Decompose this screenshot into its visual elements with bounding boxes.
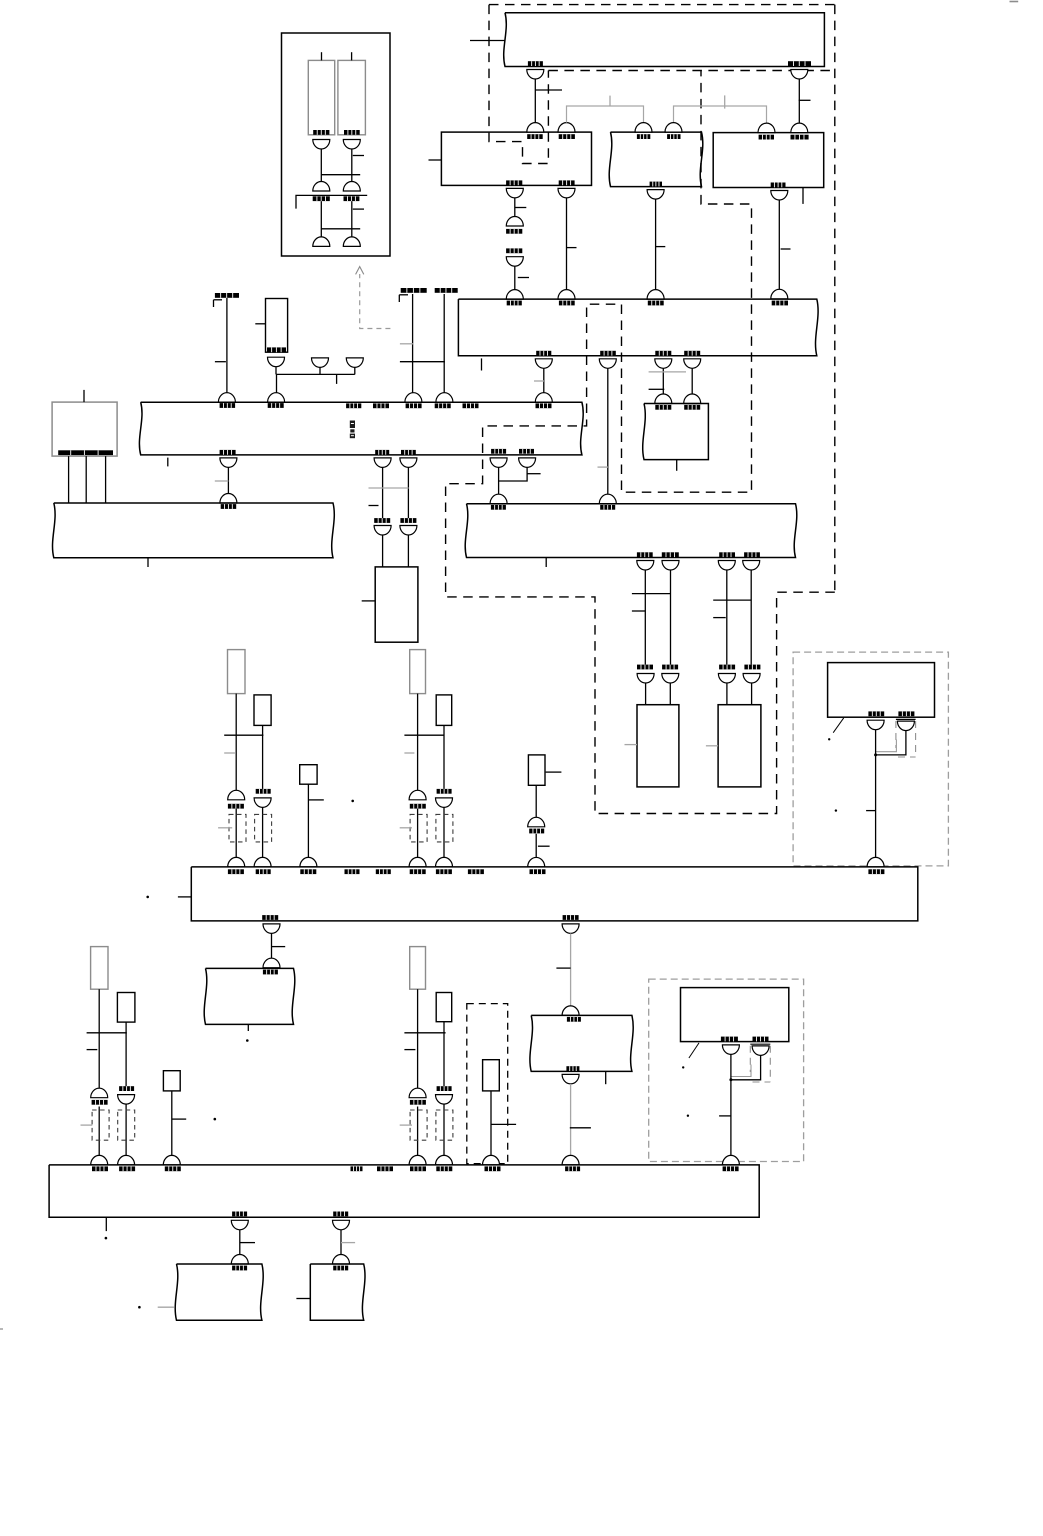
tick into CB5	[255, 323, 265, 325]
label	[221, 504, 237, 509]
label	[719, 665, 735, 670]
label	[436, 869, 452, 874]
label	[662, 552, 679, 557]
cable A5	[436, 695, 452, 726]
label	[263, 970, 278, 975]
dashed boundary top	[489, 4, 835, 6]
breaker	[490, 458, 507, 468]
breaker	[374, 526, 391, 536]
breaker	[263, 958, 280, 968]
breaker	[374, 458, 391, 468]
tick	[404, 1049, 415, 1051]
label	[506, 180, 522, 185]
tick	[491, 1123, 516, 1125]
cable B6	[483, 1060, 500, 1091]
battery cell B2	[338, 60, 366, 134]
label	[375, 450, 389, 455]
wire	[691, 368, 693, 394]
breaker	[118, 1155, 135, 1165]
wire stub	[481, 358, 483, 370]
switchgear SG1	[441, 132, 591, 185]
label	[300, 869, 316, 874]
breaker	[91, 1088, 108, 1098]
wire	[351, 201, 353, 237]
dashed bracket	[92, 1110, 109, 1140]
bus M	[458, 299, 818, 356]
breaker	[436, 857, 453, 867]
tick	[353, 208, 364, 210]
breaker CB-E1f	[343, 237, 360, 247]
tie tick	[87, 1032, 127, 1034]
breaker	[228, 790, 245, 799]
gray wire	[570, 1084, 572, 1156]
label	[648, 301, 664, 306]
wire	[382, 535, 384, 567]
dot	[682, 1066, 684, 1068]
label	[436, 1166, 452, 1171]
ups box U2	[681, 988, 789, 1042]
bus W	[53, 503, 335, 558]
cable A4	[410, 650, 426, 694]
label	[637, 552, 653, 557]
wire	[417, 989, 419, 1088]
breaker	[558, 290, 575, 300]
gray tick	[400, 827, 412, 829]
wire	[514, 266, 516, 289]
label	[165, 1166, 181, 1171]
tick	[369, 505, 379, 507]
gray feeder G2	[674, 106, 767, 123]
gray tick	[625, 744, 638, 746]
junction dot	[729, 1078, 732, 1081]
label	[528, 61, 543, 66]
wire	[443, 725, 445, 789]
source label	[214, 293, 240, 307]
breaker	[655, 359, 672, 369]
breaker	[228, 857, 245, 867]
wire stub above B1	[321, 52, 323, 60]
transformer TX1	[637, 705, 679, 787]
label	[333, 1266, 348, 1271]
label	[744, 665, 760, 670]
breaker	[599, 494, 616, 504]
label	[655, 405, 671, 410]
label	[267, 347, 286, 352]
label	[772, 301, 788, 306]
gray tick	[81, 1124, 93, 1126]
breaker	[400, 458, 417, 468]
wire	[351, 149, 353, 182]
label	[256, 869, 271, 874]
label	[437, 1086, 452, 1091]
label	[228, 804, 244, 809]
dot	[146, 896, 149, 899]
breaker	[662, 674, 679, 684]
label	[771, 183, 786, 188]
breaker	[519, 458, 536, 468]
gray stair wire	[731, 1065, 751, 1077]
cable B1	[91, 947, 108, 990]
wire stub	[676, 460, 678, 471]
tie tick	[713, 599, 751, 601]
breaker	[897, 721, 914, 731]
wire	[566, 198, 568, 290]
leader line	[689, 1043, 699, 1058]
label	[485, 1166, 501, 1171]
breaker	[263, 924, 280, 934]
wire	[407, 467, 409, 518]
wire	[607, 368, 609, 494]
label	[753, 1037, 769, 1042]
tick	[309, 799, 324, 801]
label	[650, 182, 662, 187]
bus N	[465, 504, 797, 558]
breaker	[743, 674, 760, 684]
label	[313, 196, 330, 201]
cable box CB5	[266, 299, 288, 353]
label	[637, 665, 653, 670]
tick into bus A	[470, 40, 505, 42]
label	[435, 403, 451, 408]
wire	[320, 201, 322, 237]
source label	[399, 288, 426, 302]
mcc box T2	[310, 1264, 365, 1320]
bus Q	[204, 968, 295, 1024]
breaker	[637, 674, 654, 684]
stray mark	[0, 1328, 3, 1330]
label	[527, 134, 543, 139]
breaker CB-E1d	[343, 182, 360, 192]
gray tick	[215, 480, 229, 482]
breaker	[558, 188, 575, 198]
breaker bracket	[896, 719, 916, 757]
wire	[276, 374, 278, 392]
breaker	[268, 357, 285, 367]
wire	[644, 570, 646, 665]
wire	[271, 933, 273, 958]
wire stub	[354, 367, 356, 374]
breaker	[867, 720, 884, 730]
transformer TX2	[718, 705, 761, 787]
breaker	[333, 1220, 350, 1230]
label	[565, 1166, 580, 1171]
wire	[443, 294, 445, 393]
breaker	[405, 393, 422, 402]
label	[529, 829, 544, 834]
wire	[499, 467, 527, 481]
gray tick	[158, 1306, 174, 1308]
tick into T	[362, 600, 376, 602]
dashed arrow to E1	[356, 267, 391, 329]
tick into SG1	[429, 159, 442, 161]
wire	[490, 1091, 492, 1156]
dashed boundary right	[834, 5, 836, 593]
label	[262, 915, 278, 920]
label	[410, 1166, 426, 1171]
breaker CB-E1e	[313, 237, 330, 247]
label	[351, 1166, 363, 1171]
tick	[656, 246, 666, 248]
label	[563, 915, 579, 920]
tie tick	[404, 734, 444, 736]
label	[600, 505, 615, 510]
wire	[645, 683, 647, 705]
wire	[655, 199, 657, 290]
tick into T2	[296, 1298, 310, 1300]
breaker	[436, 1095, 453, 1105]
gray dashed group GD2	[649, 979, 804, 1161]
junction dot	[874, 753, 877, 756]
tick	[535, 89, 562, 91]
tick into bus P	[178, 896, 191, 898]
wire	[534, 79, 536, 123]
ups box U1	[828, 663, 935, 718]
wire	[726, 570, 728, 665]
leader line	[833, 718, 844, 733]
label	[868, 711, 884, 716]
label G	[58, 450, 113, 455]
gray stair wire	[876, 740, 897, 752]
label	[791, 135, 809, 140]
bus L	[139, 402, 583, 455]
wire	[382, 467, 384, 518]
breaker	[527, 70, 544, 80]
breaker	[665, 123, 682, 133]
node wire	[277, 373, 355, 375]
cable B3	[163, 1071, 180, 1091]
tick	[632, 610, 645, 612]
dashed boundary inner	[548, 70, 834, 72]
wire	[662, 368, 664, 394]
label B2	[344, 130, 360, 135]
tie wire	[321, 174, 360, 176]
label	[536, 351, 551, 356]
label	[92, 1100, 108, 1105]
label	[519, 449, 534, 454]
gray tick	[534, 380, 544, 382]
label	[759, 135, 774, 140]
tick	[713, 617, 726, 619]
breaker	[231, 1255, 248, 1265]
tick	[215, 361, 226, 363]
tick	[719, 1115, 731, 1117]
breaker	[409, 1088, 426, 1098]
label	[655, 351, 671, 356]
wire	[98, 989, 100, 1088]
breaker	[771, 191, 788, 201]
tick	[353, 155, 364, 157]
breaker	[662, 561, 679, 571]
breaker	[118, 1095, 135, 1105]
wire stub	[802, 188, 804, 204]
wire	[443, 1022, 445, 1086]
dot	[828, 738, 830, 740]
bus P	[191, 867, 918, 921]
label	[559, 134, 575, 139]
gray tick	[724, 95, 726, 108]
dot	[246, 1039, 249, 1042]
label	[719, 552, 735, 557]
gray tick	[649, 371, 686, 373]
tick	[527, 473, 541, 475]
breaker	[490, 494, 507, 504]
label	[228, 869, 244, 874]
wire	[227, 467, 229, 493]
wire	[275, 367, 277, 375]
tie wire	[321, 228, 360, 230]
wire	[125, 1022, 127, 1086]
breaker	[409, 1155, 426, 1165]
breaker	[637, 561, 654, 571]
label	[232, 1212, 247, 1217]
dashed bracket	[229, 814, 246, 842]
breaker	[722, 1155, 739, 1165]
label	[468, 869, 484, 874]
tick	[649, 388, 665, 390]
label	[662, 665, 678, 670]
wire stub above B2	[351, 52, 353, 60]
wire	[407, 535, 409, 567]
wire	[443, 1104, 445, 1155]
label	[406, 403, 422, 408]
label B1	[313, 130, 329, 135]
label	[506, 229, 522, 234]
breaker	[647, 290, 664, 300]
tick	[546, 771, 562, 773]
enclosure box E1	[282, 33, 391, 256]
node bar E1	[296, 195, 367, 208]
wire stub	[545, 558, 547, 568]
cable A2	[254, 695, 271, 726]
breaker	[635, 123, 652, 133]
wire stub	[319, 367, 321, 374]
dot	[214, 1118, 217, 1121]
wire	[778, 200, 780, 290]
label	[410, 869, 426, 874]
dashed bracket	[436, 1110, 453, 1140]
wire	[226, 298, 228, 393]
breaker	[535, 393, 552, 402]
breaker	[436, 393, 453, 402]
tick	[515, 207, 527, 209]
label	[530, 869, 546, 874]
label	[220, 450, 236, 455]
wire	[417, 1107, 419, 1156]
gray dashed group GD1	[793, 652, 948, 866]
label	[507, 301, 522, 306]
label	[119, 1166, 135, 1171]
gray tick	[400, 343, 414, 345]
wire	[98, 1107, 100, 1156]
breaker	[436, 798, 453, 808]
dashed bracket	[410, 1110, 427, 1140]
breaker	[718, 561, 735, 571]
dashed bracket	[436, 814, 453, 842]
tie tick	[400, 361, 445, 363]
wire	[239, 1230, 241, 1255]
wire stub	[605, 1071, 607, 1084]
dashed cubicle	[467, 1004, 508, 1164]
mcc box MCC1	[643, 404, 709, 460]
breaker	[220, 494, 237, 504]
label	[345, 869, 360, 874]
tick	[172, 1118, 186, 1120]
gray tick	[400, 1124, 412, 1126]
wire stub	[147, 558, 149, 567]
tick	[567, 247, 577, 249]
wire	[798, 79, 800, 123]
label	[232, 1266, 247, 1271]
tie tick	[224, 734, 263, 736]
label	[744, 552, 760, 557]
tick	[799, 99, 811, 101]
wire	[171, 1091, 173, 1156]
breaker	[506, 290, 523, 300]
breaker	[409, 857, 426, 867]
switchgear SG2	[609, 132, 703, 187]
wire stub	[336, 374, 338, 384]
label	[220, 403, 236, 408]
label	[119, 1086, 134, 1091]
wire	[68, 456, 70, 503]
dot	[835, 809, 837, 811]
label	[333, 1212, 348, 1217]
wire	[235, 694, 237, 791]
label	[684, 405, 700, 410]
wire	[670, 570, 672, 665]
breaker	[562, 924, 579, 934]
tie tick	[404, 1032, 445, 1034]
label	[410, 1100, 426, 1105]
label	[536, 403, 552, 408]
label	[256, 789, 271, 794]
breaker	[254, 798, 271, 808]
gray tick	[404, 752, 414, 754]
generator box G	[52, 402, 117, 456]
label	[401, 450, 416, 455]
gray tick	[218, 827, 232, 829]
label	[346, 403, 361, 408]
tick	[518, 277, 529, 279]
wire	[307, 784, 309, 857]
breaker CB-E1b	[343, 140, 360, 150]
breaker	[528, 817, 545, 826]
breaker	[562, 1006, 579, 1016]
breaker	[535, 359, 552, 369]
breaker	[400, 526, 417, 536]
dot	[138, 1306, 141, 1309]
breaker	[436, 1155, 453, 1165]
wire	[340, 1230, 342, 1255]
cable A1	[228, 650, 246, 694]
breaker	[718, 674, 735, 684]
wire	[543, 368, 545, 392]
tick	[272, 946, 286, 948]
label	[376, 869, 391, 874]
label	[92, 1166, 108, 1171]
gray feeder G1	[567, 106, 644, 123]
wire	[669, 683, 671, 705]
breaker	[220, 458, 237, 468]
breaker	[791, 123, 808, 133]
label	[437, 789, 452, 794]
wire	[125, 1104, 127, 1155]
wire	[535, 785, 537, 817]
wire	[750, 570, 752, 665]
label	[788, 61, 811, 66]
label	[410, 804, 426, 809]
source label	[435, 288, 458, 293]
